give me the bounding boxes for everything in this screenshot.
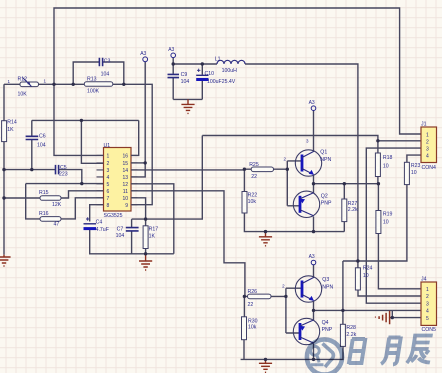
wire R24 leads <box>358 261 421 296</box>
wire Q4 collector to lower ground rail <box>313 344 315 360</box>
resistor R24 <box>355 265 372 290</box>
wire OUTA net U1 pin 11 down to R26 node <box>131 191 245 297</box>
wire L1 row left segment <box>173 63 217 65</box>
wire R17 leads <box>145 219 147 254</box>
svg-text:14: 14 <box>122 168 128 174</box>
svg-text:104: 104 <box>37 142 46 148</box>
svg-text:104: 104 <box>101 72 110 78</box>
wire C6 branch verticals <box>31 120 33 169</box>
svg-text:10: 10 <box>122 196 128 202</box>
svg-text:22: 22 <box>251 174 257 180</box>
wire R26 leads <box>244 295 286 297</box>
svg-text:10: 10 <box>363 273 369 279</box>
svg-text:1K: 1K <box>149 234 156 240</box>
watermark character chen <box>407 336 434 364</box>
capacitor C3 <box>99 58 110 78</box>
svg-text:4: 4 <box>426 309 429 315</box>
svg-text:NPN: NPN <box>320 157 331 163</box>
wire L1 output to x=357.9 and down <box>245 64 358 261</box>
svg-text:100uH: 100uH <box>222 68 238 74</box>
ground under C9/C10 <box>181 99 194 113</box>
power port A3 (top left) <box>140 51 147 62</box>
svg-text:10K: 10K <box>18 92 28 98</box>
wire pin5 row down to R16 left <box>26 184 40 219</box>
power port A3 (above Q1) <box>309 100 316 111</box>
svg-text:R23: R23 <box>411 163 421 169</box>
capacitor C4 electrolytic <box>84 217 109 233</box>
svg-text:R15: R15 <box>39 190 49 196</box>
wire A3 to Q3 collector <box>313 265 315 278</box>
svg-text:R14: R14 <box>7 120 17 126</box>
svg-text:2: 2 <box>426 294 429 300</box>
svg-text:C5: C5 <box>60 165 67 171</box>
svg-text:A3: A3 <box>140 51 146 57</box>
transistor Q4 PNP <box>293 318 333 344</box>
svg-text:CON5: CON5 <box>422 327 437 333</box>
svg-text:9: 9 <box>125 203 128 209</box>
svg-text:R25: R25 <box>249 162 259 168</box>
svg-text:10k: 10k <box>248 199 257 205</box>
wire R19 leads <box>378 184 421 289</box>
svg-text:104: 104 <box>116 233 125 239</box>
wire R15 left lead <box>4 197 40 199</box>
resistor R13 <box>84 77 113 95</box>
wire R16 right to U1 pin 7 <box>61 198 104 219</box>
wire Q2 collector to ground rail <box>313 217 315 232</box>
svg-text:4: 4 <box>426 153 429 159</box>
svg-text:Q4: Q4 <box>322 320 329 326</box>
svg-text:R12: R12 <box>18 77 28 83</box>
svg-text:C7: C7 <box>117 227 124 233</box>
wire C7/R17 top rail to riser x=202.3 <box>132 136 203 220</box>
svg-text:6: 6 <box>107 189 110 195</box>
svg-text:100K: 100K <box>87 89 100 95</box>
svg-text:104: 104 <box>181 79 190 85</box>
wire Q1 emitter to Q2 emitter junction <box>313 175 315 194</box>
capacitor C6 <box>26 134 46 149</box>
svg-text:1: 1 <box>107 154 110 160</box>
wire C7 leads <box>131 219 133 254</box>
resistor R25 <box>249 162 273 180</box>
wire C3 parallel branch <box>73 62 124 84</box>
wire R15 right to U1 pin 6 <box>61 191 104 198</box>
svg-text:223: 223 <box>59 172 68 178</box>
svg-text:R18: R18 <box>383 155 393 161</box>
wire C4 bottom to ground rail <box>90 230 174 254</box>
ground under R17/C7 <box>139 254 152 270</box>
svg-text:L1: L1 <box>215 56 221 62</box>
resistor R22 <box>242 192 257 214</box>
svg-text:R28: R28 <box>346 325 356 331</box>
svg-text:2: 2 <box>426 139 429 145</box>
wire C9 leads <box>172 64 174 99</box>
svg-text:R30: R30 <box>248 318 258 324</box>
ground on upper rail <box>259 232 272 246</box>
wire CON5 pin5 tie <box>390 310 421 317</box>
wire feedback from R13/C3 node to U1 pin 9 <box>124 84 152 204</box>
connector J1 CON4 <box>421 122 437 172</box>
transistor Q2 PNP <box>293 191 332 217</box>
wire R25 leads <box>244 168 287 170</box>
svg-text:C6: C6 <box>39 134 46 140</box>
svg-text:R13: R13 <box>87 77 97 83</box>
wire drive net down to R28 <box>342 261 344 324</box>
resistor R17 <box>143 226 158 249</box>
svg-text:1K: 1K <box>7 127 14 133</box>
wire C5/C6 row y=169.6 <box>4 169 55 171</box>
svg-text:12K: 12K <box>52 202 62 208</box>
capacitor C9 <box>168 72 190 85</box>
wire VREF rail y=120.4 <box>32 119 139 121</box>
svg-text:Q1: Q1 <box>320 150 327 156</box>
wire Q3 emitter to Q4 emitter junction <box>313 301 315 321</box>
wire left rail x=4 <box>3 84 5 255</box>
svg-text:4: 4 <box>107 175 110 181</box>
svg-text:PNP: PNP <box>321 201 332 207</box>
svg-text:C4: C4 <box>96 220 103 226</box>
svg-text:3: 3 <box>426 301 429 307</box>
resistor R27 <box>342 199 358 222</box>
capacitor C7 <box>116 227 139 240</box>
wire C10 leads <box>201 64 203 99</box>
wire U1 pin 15 stub <box>131 162 145 164</box>
svg-text:10k: 10k <box>248 325 257 331</box>
svg-text:11: 11 <box>123 189 128 195</box>
svg-text:A3: A3 <box>309 100 315 106</box>
wire R28 bottom to lower ground rail <box>241 346 343 359</box>
wire A3 to Q1 collector <box>313 111 315 153</box>
svg-text:5: 5 <box>107 182 110 188</box>
svg-text:1: 1 <box>426 132 429 138</box>
svg-text:2.2k: 2.2k <box>348 207 358 213</box>
svg-text:Q2: Q2 <box>321 193 328 199</box>
svg-text:16: 16 <box>122 154 128 160</box>
svg-text:1: 1 <box>426 287 429 293</box>
svg-text:R26: R26 <box>248 289 258 295</box>
svg-text:2: 2 <box>107 161 110 167</box>
svg-text:7: 7 <box>107 196 110 202</box>
connector J4 CON5 <box>421 277 437 333</box>
wire drop to U1 pin 2 <box>81 120 103 163</box>
resistor R26 <box>248 289 272 308</box>
ground at left rail bottom <box>0 255 11 266</box>
svg-text:12: 12 <box>122 182 128 188</box>
wire A3-2 down to L1 row <box>172 58 174 64</box>
op-amp U1 SG3525 body <box>97 143 138 219</box>
svg-text:A3: A3 <box>309 254 315 260</box>
svg-text:13: 13 <box>122 175 128 181</box>
resistor R23 <box>404 162 420 184</box>
power port A3 (above Q3) <box>309 254 316 265</box>
power port A3 (above C9) <box>168 47 175 58</box>
svg-text:10: 10 <box>411 170 417 176</box>
watermark logo ring <box>307 339 342 373</box>
watermark character ri <box>348 338 366 365</box>
svg-text:R27: R27 <box>348 201 358 207</box>
svg-text:5: 5 <box>426 316 429 322</box>
wire inverting-input net: R12 node down to U1 pin 1 <box>54 84 104 155</box>
svg-text:C9: C9 <box>181 72 188 78</box>
wire J1 pin3 link to CON5 pin3 <box>366 148 421 303</box>
resistor R19 <box>376 211 393 234</box>
svg-text:22: 22 <box>248 302 254 308</box>
wire riser to U1 pin 16 <box>131 120 139 155</box>
resistor R15 <box>39 190 62 208</box>
svg-text:R17: R17 <box>149 227 159 233</box>
svg-text:SG3525: SG3525 <box>104 213 123 219</box>
wire pin2 long link y=135.5 to J1 pin 2 and R18 <box>202 136 421 154</box>
svg-text:Q3: Q3 <box>322 277 329 283</box>
svg-text:C3: C3 <box>104 59 111 65</box>
wire Q1/Q2 base column <box>287 161 302 206</box>
capacitor C5 <box>56 165 68 178</box>
svg-text:10: 10 <box>383 220 389 226</box>
ground sideways at CON5 pin 5 <box>375 311 390 324</box>
svg-text:3: 3 <box>426 146 429 152</box>
wire R13 leads <box>73 83 124 85</box>
watermark character yue <box>381 337 401 365</box>
svg-text:R22: R22 <box>248 192 258 198</box>
svg-text:3: 3 <box>107 168 110 174</box>
wire R27 leads <box>343 184 345 232</box>
svg-text:10: 10 <box>383 163 389 169</box>
wire Q3/Q4 base column <box>286 288 302 333</box>
resistor R16 <box>39 211 61 228</box>
inductor L1 <box>215 56 245 74</box>
wire A3 feed down through pin 15 to U1 pin 13 <box>131 62 145 177</box>
resistor R12 potentiometer <box>8 77 47 98</box>
svg-text:4.7uF: 4.7uF <box>96 227 109 233</box>
svg-text:100uF25.4V: 100uF25.4V <box>207 79 236 85</box>
capacitor C10 electrolytic <box>196 69 236 85</box>
wire U1 pin 12 to ground rail <box>131 184 174 254</box>
svg-text:R24: R24 <box>363 265 373 271</box>
resistor R14 <box>2 120 17 142</box>
svg-text:R19: R19 <box>383 212 393 218</box>
wire R22 bottom to upper ground rail <box>244 169 344 231</box>
wire C5 right jog down to pin5 row <box>59 170 82 184</box>
wire U1 pin 10 to R17/C7 rail <box>131 198 146 219</box>
wire R23 leads to J1 pin 4 <box>343 155 421 261</box>
wire C9/C10 ground rail <box>173 98 202 100</box>
svg-text:J4: J4 <box>421 277 427 283</box>
wire R18 bottom lead <box>377 177 379 184</box>
svg-text:8: 8 <box>107 203 110 209</box>
wire top rail from node at R12 up and across to J1 pin 1 <box>54 8 421 134</box>
ground on lower rail <box>259 359 272 372</box>
transistor Q1 NPN <box>284 139 332 177</box>
resistor R18 <box>375 153 392 177</box>
svg-text:C10: C10 <box>205 71 215 77</box>
wire emitter output rail <box>314 183 379 185</box>
wire R30 leads <box>243 296 245 359</box>
transistor Q3 NPN <box>282 276 333 302</box>
svg-text:A3: A3 <box>168 47 174 53</box>
resistor R30 <box>242 317 258 340</box>
wire lower emitter rail to CON5 pin 4 <box>314 309 422 311</box>
svg-text:15: 15 <box>122 161 128 167</box>
svg-text:J1: J1 <box>421 122 427 128</box>
svg-text:R16: R16 <box>39 211 49 217</box>
svg-text:U1: U1 <box>104 143 111 149</box>
svg-text:CON4: CON4 <box>422 165 437 171</box>
svg-text:NPN: NPN <box>322 284 333 290</box>
wire R12 row <box>4 83 73 85</box>
wire U1 pin 8 to C4 <box>90 205 104 222</box>
resistor R28 <box>340 324 356 346</box>
svg-text:PNP: PNP <box>322 327 333 333</box>
wire OUTB net U1 pin 14 to R25 <box>131 169 244 171</box>
wire U1 pin 5 row <box>26 183 104 185</box>
svg-text:47: 47 <box>54 222 60 228</box>
